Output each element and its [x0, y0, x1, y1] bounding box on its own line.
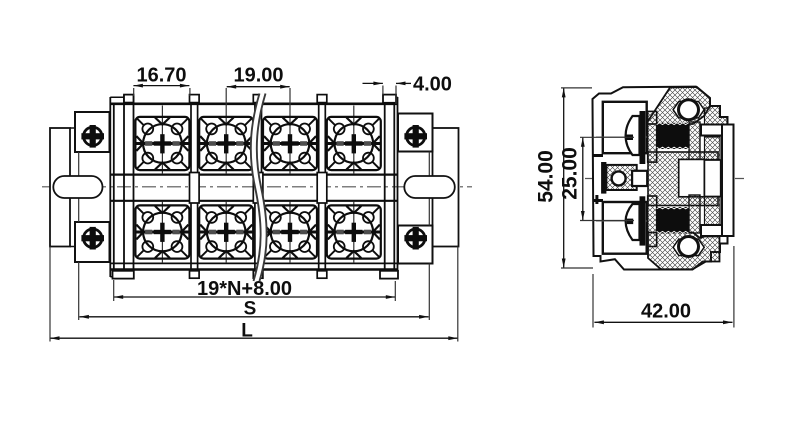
right bracket bottom: [398, 226, 433, 264]
DIN rail bottom lip: [701, 225, 722, 236]
left bracket bottom: [75, 222, 110, 262]
lower screw axis: [596, 220, 648, 222]
svg-text:25.00: 25.00: [559, 147, 582, 200]
svg-text:42.00: 42.00: [641, 301, 691, 323]
lower clamp plate (hatched): [648, 196, 657, 247]
left end wall bottom tab: [113, 271, 134, 279]
dim 54.00: [535, 88, 594, 268]
upper clamp plate (hatched): [648, 111, 657, 162]
barrier gap tab 2: [253, 173, 263, 204]
break line curve 2: [257, 94, 267, 282]
centerline (dash-dot): [42, 186, 472, 188]
lower rail-side wall (hatched): [705, 197, 721, 225]
lower threaded shank: [657, 207, 689, 233]
svg-text:16.70: 16.70: [136, 65, 186, 87]
terminal cell r2c1: [135, 205, 189, 258]
dim L: [50, 247, 458, 342]
barrier wall 2 (under break): [253, 95, 263, 279]
main body left edge: [109, 97, 111, 277]
housing outline: [593, 87, 734, 270]
left end shelf lines: [110, 97, 124, 276]
main body right edge: [397, 97, 399, 277]
center square nut block: [601, 162, 647, 194]
terminal cell r1c4: [327, 117, 381, 170]
left end wall top tab: [124, 95, 134, 103]
left slot (obround): [53, 176, 102, 198]
pole center line col4: [353, 106, 355, 264]
bracket screw bottom-right: [404, 227, 427, 250]
bracket screw top-left: [81, 125, 104, 148]
upper wire cavity: [603, 102, 647, 153]
barrier gap tab 1: [190, 173, 200, 204]
lower hex nut: [673, 239, 704, 255]
terminal cell r1c3: [263, 117, 317, 170]
pole center line col2: [225, 88, 227, 263]
right bracket top: [398, 114, 433, 152]
DIN rail back: [722, 125, 734, 237]
S extension line right: [428, 152, 430, 321]
lower wire cavity: [603, 202, 647, 254]
left mounting flange: [50, 128, 70, 247]
dim 19.00: [227, 65, 290, 89]
bracket screw top-right: [404, 125, 427, 148]
upper screw axis: [596, 136, 648, 138]
upper hex nut: [673, 102, 704, 118]
dim S: [79, 299, 428, 320]
mid white square: [679, 159, 705, 196]
upper right wall strip (hatched): [689, 122, 700, 162]
left bracket top: [75, 112, 110, 152]
mid band hatched: [648, 152, 718, 206]
S extension line left (through slot): [78, 152, 80, 320]
inter-row rib top edge: [111, 174, 397, 176]
main body top edge: [110, 103, 398, 106]
dim 19*N+8.00: [114, 278, 396, 301]
terminal cell r2c3: [263, 205, 317, 258]
break line white band: [251, 94, 267, 282]
terminal cell r1c2: [199, 117, 253, 170]
pole center line col3: [289, 88, 291, 263]
section centerline: [585, 178, 744, 180]
barrier gap tab 3: [317, 173, 327, 204]
right end wall: [385, 95, 395, 279]
upper threaded shank: [657, 123, 689, 149]
barrier wall 1: [190, 95, 200, 279]
right mounting flange: [433, 128, 459, 247]
upper clamp yoke (hatched): [648, 87, 710, 124]
terminal cell r2c4: [327, 205, 381, 258]
main body bottom edge: [110, 268, 398, 271]
right slot (obround): [404, 176, 455, 198]
right end wall bottom tab: [380, 271, 398, 279]
lower screw head: [626, 196, 646, 245]
bracket screw bottom-left: [81, 227, 104, 250]
cavity mouth marks: [593, 156, 603, 201]
upper rail-side wall (hatched): [705, 106, 728, 160]
dim 25.00: [559, 137, 635, 220]
lower right wall strip (hatched): [689, 195, 700, 233]
bottom ledge line: [111, 262, 397, 264]
dim 16.70: [133, 65, 190, 97]
lower clamp yoke + foot (hatched): [648, 233, 720, 270]
inter-row rib bottom edge: [111, 200, 397, 202]
dim 4.00: [363, 74, 452, 105]
break line curve 1: [251, 94, 261, 282]
svg-text:4.00: 4.00: [413, 74, 452, 96]
right end shelf lines: [384, 97, 398, 276]
svg-text:19.00: 19.00: [233, 65, 283, 87]
right end wall top tab: [383, 95, 396, 103]
terminal cell r2c2: [199, 205, 253, 258]
pole center line col1: [161, 106, 163, 264]
left end wall: [114, 95, 134, 279]
mid right channel: [704, 160, 720, 197]
barrier wall 3: [317, 95, 327, 279]
svg-text:54.00: 54.00: [535, 150, 558, 203]
DIN rail top lip: [701, 125, 722, 136]
terminal cell r1c1: [135, 117, 189, 170]
upper screw head: [626, 111, 646, 164]
dim 42.00: [593, 246, 734, 328]
